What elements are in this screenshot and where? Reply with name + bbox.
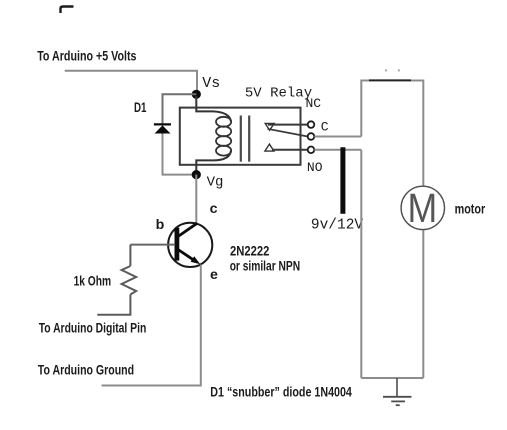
relay coil loops <box>216 117 231 127</box>
wire motor loop bottom <box>361 377 423 379</box>
relay core line 1 <box>240 116 242 162</box>
svg-text:Vs: Vs <box>202 75 220 92</box>
relay pin NO terminal <box>308 147 315 154</box>
wire motor loop right lower <box>422 230 424 378</box>
wire +5V rail <box>65 71 197 91</box>
relay NO contact line <box>272 149 308 151</box>
wire NO contact to battery branch <box>314 149 361 151</box>
svg-text:D1 “snubber” diode 1N4004: D1 “snubber” diode 1N4004 <box>210 384 352 400</box>
svg-text:To Arduino Ground: To Arduino Ground <box>38 363 134 379</box>
wire base <box>130 244 175 246</box>
node tick marks above loop <box>385 69 387 71</box>
transistor Q1 emitter stroke <box>178 250 194 260</box>
relay coil top lead <box>196 96 231 122</box>
wire Vs to diode branch <box>163 94 197 124</box>
wire motor loop left upper <box>360 80 362 137</box>
svg-text:To Arduino Digital Pin: To Arduino Digital Pin <box>39 321 147 337</box>
relay core line 2 <box>248 116 250 162</box>
resistor R1 top lead <box>129 245 131 266</box>
relay NC contact line <box>268 124 308 126</box>
stray mark top-left <box>61 7 74 14</box>
motor M1 circle <box>401 186 444 229</box>
svg-text:b: b <box>156 217 165 233</box>
svg-text:D1: D1 <box>134 100 147 116</box>
ground symbol stub <box>396 378 398 397</box>
svg-text:or similar NPN: or similar NPN <box>230 258 300 274</box>
relay NO fixed contact triangle <box>265 144 274 151</box>
svg-text:9v/12V: 9v/12V <box>311 217 364 233</box>
svg-text:c: c <box>210 201 218 217</box>
wire dark segment on loop top <box>369 79 411 81</box>
transistor Q1 base bar <box>174 228 179 261</box>
wire motor loop left lower <box>360 150 362 378</box>
svg-text:1k Ohm: 1k Ohm <box>74 274 112 290</box>
relay NC fixed contact triangle <box>265 124 274 131</box>
svg-text:NO: NO <box>307 160 323 175</box>
resistor R1 bottom lead <box>97 295 130 315</box>
svg-text:e: e <box>210 267 218 283</box>
svg-text:2N2222: 2N2222 <box>230 243 269 259</box>
diode D1 anode triangle <box>155 125 171 133</box>
resistor R1 zigzag <box>122 266 137 295</box>
transistor Q1 collector stroke <box>178 223 197 236</box>
svg-text:motor: motor <box>455 201 486 217</box>
transistor Q1 circle <box>168 223 212 267</box>
svg-text:M: M <box>408 185 438 231</box>
wire motor loop top <box>361 80 423 82</box>
svg-text:Vg: Vg <box>207 175 224 191</box>
svg-text:5V Relay: 5V Relay <box>245 85 312 101</box>
wire Vg to collector <box>195 175 197 224</box>
relay pin C terminal <box>308 133 315 140</box>
relay coil bottom lead <box>196 151 231 173</box>
relay common arm <box>268 129 308 137</box>
node Vg <box>192 170 201 179</box>
svg-text:NC: NC <box>306 96 322 111</box>
relay U1 box <box>180 108 301 165</box>
ground symbol bars <box>383 396 412 398</box>
relay pin NC terminal <box>308 121 315 128</box>
wire motor loop right upper <box>422 80 424 187</box>
node Vs <box>192 90 201 99</box>
battery 9v/12V bar <box>340 147 345 213</box>
svg-text:C: C <box>321 120 329 135</box>
wire emitter down <box>102 265 201 386</box>
svg-text:To Arduino +5 Volts: To Arduino +5 Volts <box>37 49 136 65</box>
transistor Q1 emitter arrow <box>191 256 201 264</box>
wire C contact to motor loop <box>314 136 361 138</box>
wire diode anode to Vg <box>163 134 197 175</box>
diode D1 cathode bar <box>154 123 171 125</box>
